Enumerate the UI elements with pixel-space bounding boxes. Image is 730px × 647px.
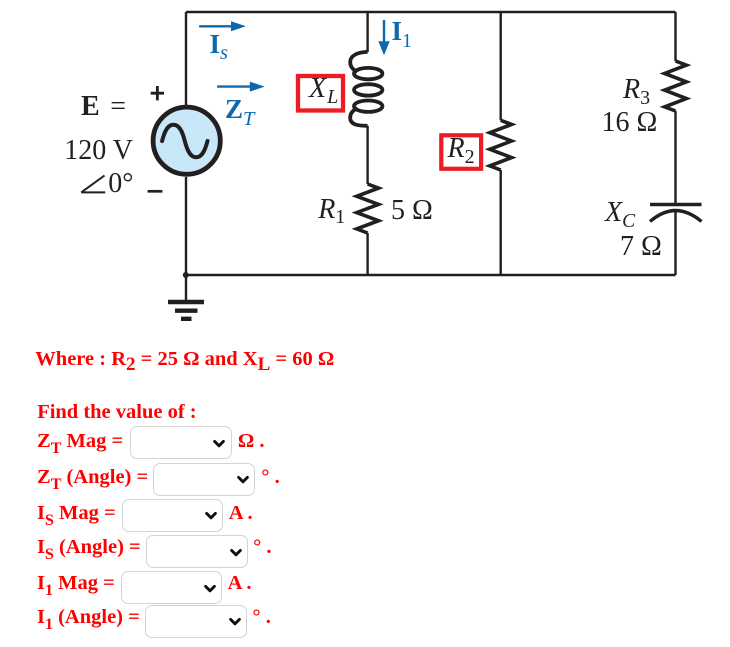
label R1 bbox=[318, 196, 345, 224]
label R3 bbox=[623, 76, 650, 104]
arrow ZT bbox=[217, 82, 265, 92]
wire branch R2 top bbox=[500, 12, 502, 120]
ground symbol bbox=[168, 275, 204, 319]
row ZT Angle unit bbox=[261, 467, 279, 488]
label 0 deg bbox=[108, 170, 133, 198]
wire left upper (source top lead) bbox=[185, 12, 187, 105]
resistor R3 zigzag bbox=[665, 61, 687, 111]
label 120 V bbox=[64, 137, 133, 165]
find line bbox=[37, 402, 196, 423]
label XC bbox=[605, 199, 635, 227]
arrow Is bbox=[199, 21, 246, 31]
wire below R1 bbox=[366, 233, 368, 275]
label 5 ohm bbox=[391, 197, 433, 225]
wire bottom bbox=[186, 274, 676, 276]
wire between coil and R1 bbox=[366, 126, 368, 184]
source minus sign bbox=[148, 190, 163, 193]
resistor R1 zigzag bbox=[357, 184, 379, 233]
label R2 in red box bbox=[448, 135, 475, 163]
label ZT bbox=[225, 96, 254, 123]
row ZT Mag unit bbox=[238, 431, 265, 452]
wire right between R3 and XC bbox=[674, 111, 676, 203]
label XL in red box bbox=[309, 75, 337, 103]
wire left lower (source bottom lead) bbox=[185, 177, 187, 275]
row ZT Mag select bbox=[130, 426, 232, 459]
label 16 ohm bbox=[602, 109, 658, 137]
row ZT Angle select bbox=[153, 463, 256, 496]
wire below R2 bbox=[500, 170, 502, 275]
row IS Mag label bbox=[37, 503, 116, 524]
label I1 bbox=[392, 18, 413, 45]
capacitor XC bbox=[650, 205, 702, 222]
row ZT Angle label bbox=[37, 467, 148, 488]
circuit schematic SVG bbox=[0, 0, 730, 340]
row I1 Angle unit bbox=[252, 607, 270, 628]
where line bbox=[35, 349, 334, 370]
row IS Angle label bbox=[37, 537, 141, 558]
wire top bbox=[186, 11, 676, 13]
resistor R2 zigzag bbox=[490, 120, 512, 170]
row I1 Angle label bbox=[37, 607, 140, 628]
row ZT Mag label bbox=[37, 431, 123, 452]
label Is bbox=[210, 31, 229, 58]
sine wave inside source bbox=[162, 125, 207, 158]
wire right below XC bbox=[674, 211, 676, 275]
arrow I1 bbox=[378, 20, 389, 55]
row IS Angle select bbox=[146, 535, 249, 568]
red box around XL bbox=[298, 76, 343, 111]
row I1 Mag unit bbox=[228, 573, 252, 594]
red box around R2 bbox=[441, 135, 481, 169]
angle symbol in source label bbox=[81, 176, 105, 193]
source plus sign bbox=[151, 86, 164, 100]
row I1 Angle select bbox=[145, 605, 248, 638]
label E = bbox=[81, 93, 126, 121]
wire branch XL/R1 top bbox=[366, 12, 368, 52]
voltage source E (AC) bbox=[153, 107, 220, 174]
row I1 Mag select bbox=[121, 571, 223, 604]
label 7 ohm bbox=[620, 233, 662, 261]
junction node dot bbox=[183, 272, 189, 278]
row I1 Mag label bbox=[37, 573, 115, 594]
inductor XL coil bbox=[350, 52, 382, 126]
wire right upper bbox=[674, 12, 676, 61]
row IS Angle unit bbox=[253, 537, 271, 558]
row IS Mag unit bbox=[229, 503, 253, 524]
row IS Mag select bbox=[122, 499, 224, 532]
